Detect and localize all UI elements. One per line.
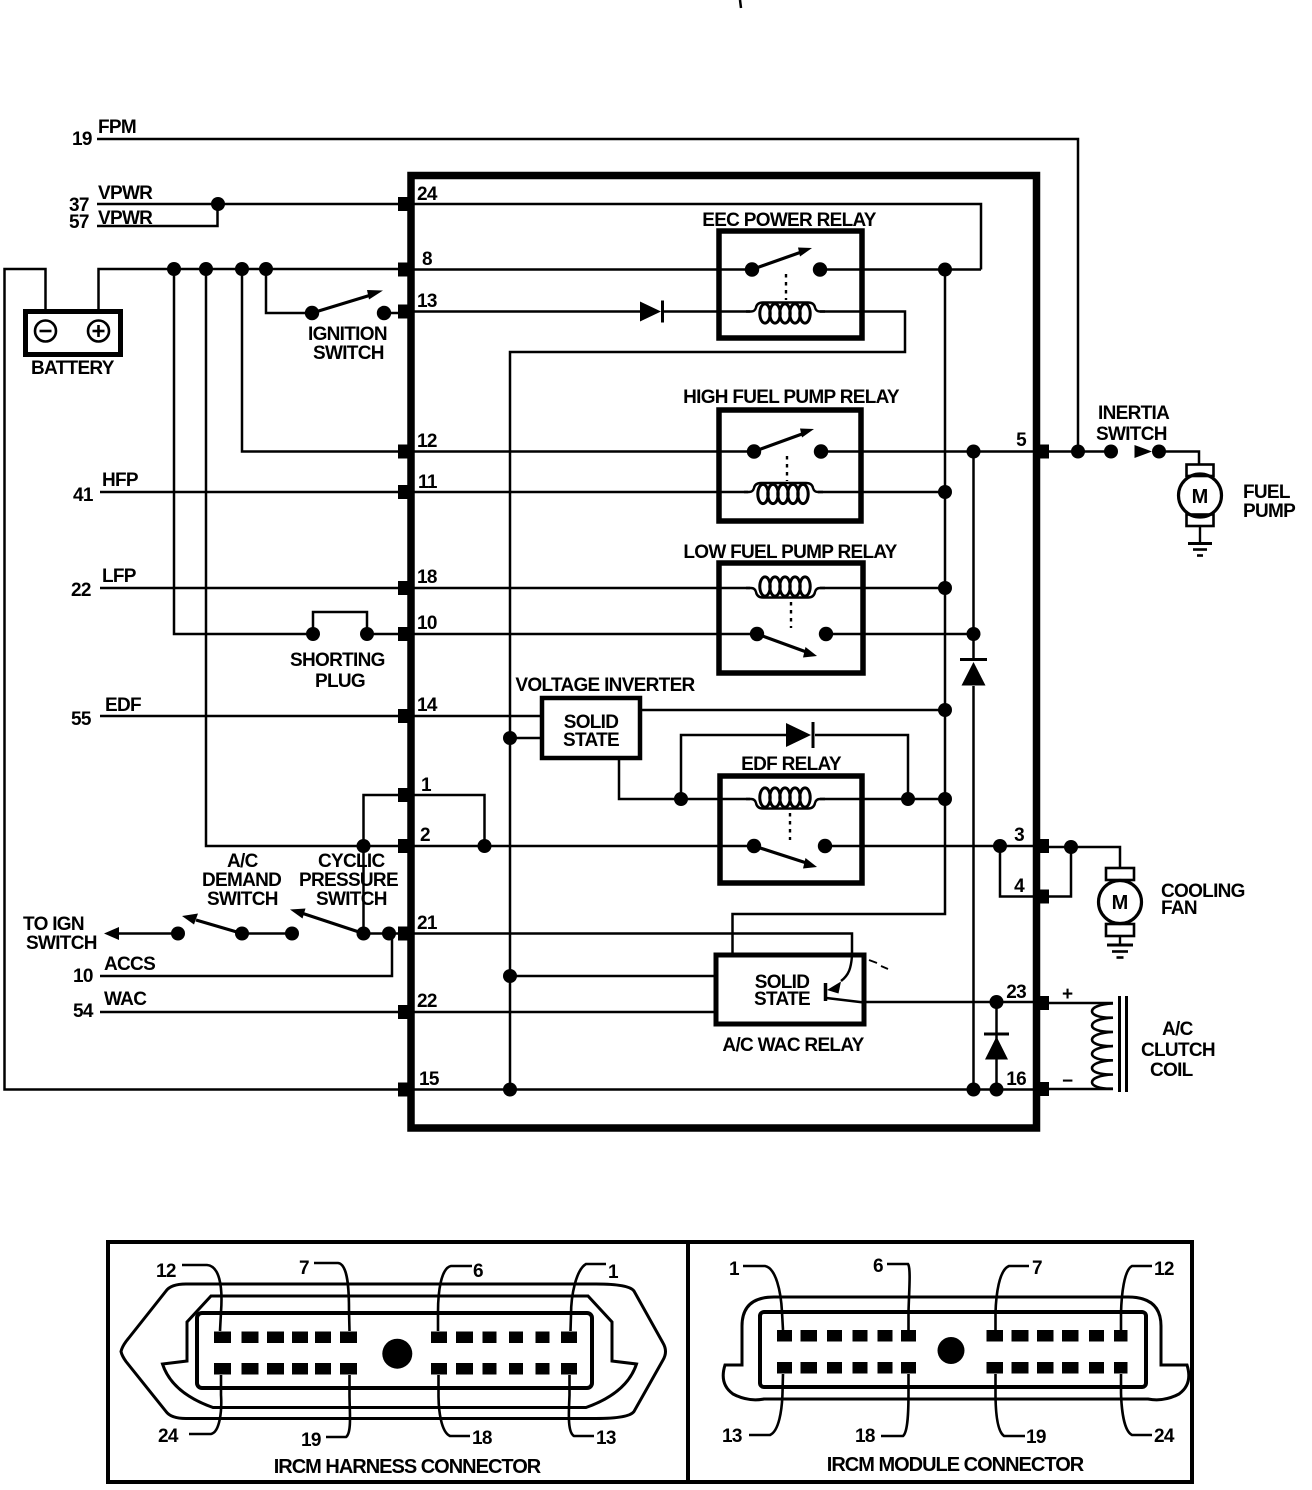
leader harness 6: [438, 1266, 472, 1331]
EEC power relay U1: [719, 231, 862, 338]
svg-text:SWITCH: SWITCH: [316, 889, 387, 910]
node LFP output junction on vertical B: [967, 627, 981, 641]
svg-text:2: 2: [420, 825, 430, 846]
connector panel divider: [686, 1242, 690, 1482]
leader harness 12: [182, 1265, 221, 1331]
pin 16 terminal: [1036, 1082, 1049, 1096]
module pin slot bottom R4: [1062, 1362, 1079, 1374]
A/C WAC relay solid state box: [716, 955, 864, 1024]
wire pin 3 to pin 4 outside bridge: [1043, 847, 1071, 897]
wire EEC right contact to loop corner: [820, 268, 981, 271]
harness pin 6 slot: [431, 1332, 447, 1344]
pin 3 terminal: [1036, 839, 1049, 853]
node pin 3 inside junction: [993, 839, 1007, 853]
ignition switch: [312, 290, 383, 313]
node EDF diode loop junction: [901, 792, 915, 806]
svg-text:24: 24: [417, 184, 438, 205]
module pin slot bottom L5: [878, 1362, 893, 1374]
module pin 19 slot: [987, 1362, 1004, 1374]
svg-text:CLUTCH: CLUTCH: [1141, 1040, 1215, 1061]
svg-text:A/C: A/C: [1162, 1019, 1194, 1040]
diode CR3 on vertical B: [960, 660, 987, 686]
svg-text:FAN: FAN: [1161, 898, 1197, 919]
harness pin slot bottom L5: [315, 1363, 331, 1375]
node LFP left contact: [750, 627, 764, 641]
harness connector center post: [382, 1339, 412, 1369]
node pin2 outside junction: [357, 839, 371, 853]
cyclic pressure switch: [290, 909, 364, 934]
svg-text:INERTIA: INERTIA: [1098, 403, 1170, 424]
svg-text:VPWR: VPWR: [98, 183, 153, 204]
node LFP coil junction on vertical A: [938, 581, 952, 595]
wire EDF diode bypass loop: [681, 735, 786, 799]
svg-text:12: 12: [417, 431, 437, 452]
module connector outer shell: [723, 1297, 1189, 1400]
svg-text:6: 6: [873, 1256, 883, 1277]
wire pin 2 to EDF left contact: [411, 845, 754, 848]
svg-text:EEC POWER RELAY: EEC POWER RELAY: [702, 210, 877, 231]
wire HFP coil to vertical A: [818, 491, 945, 494]
harness pin slot bottom L3: [267, 1363, 284, 1375]
module pin slot top R5: [1089, 1330, 1104, 1342]
svg-text:54: 54: [73, 1001, 94, 1022]
node HFP right contact: [814, 444, 828, 458]
svg-text:PLUG: PLUG: [315, 671, 365, 692]
node EDF left contact: [747, 839, 761, 853]
module pin slot top L4: [853, 1330, 868, 1342]
svg-text:4: 4: [1014, 876, 1025, 897]
harness pin 24 slot: [214, 1363, 231, 1375]
leader module 6: [887, 1264, 910, 1330]
node to-ign contact: [171, 927, 185, 941]
node ignition switch right contact: [377, 306, 391, 320]
wire shorting plug to pin 10: [367, 633, 404, 636]
wire EEC coil return loop to vertical at x510: [510, 312, 905, 1090]
WAC relay transistor Q1: [826, 956, 865, 1003]
node EDF right contact: [818, 839, 832, 853]
svg-text:11: 11: [418, 472, 438, 493]
leader harness 18: [439, 1375, 471, 1436]
wire pin 13 to diode: [411, 310, 640, 313]
svg-text:5: 5: [1016, 430, 1027, 451]
svg-text:1: 1: [421, 775, 432, 796]
harness pin 19 slot: [340, 1363, 357, 1375]
wire diode to EEC coil: [664, 310, 750, 313]
module pin 13 slot: [777, 1362, 792, 1374]
wire x510 junction to WAC relay input: [510, 975, 716, 978]
wire VPWR pin57 riser to junction: [97, 204, 218, 226]
harness pin 13 slot: [561, 1363, 577, 1375]
svg-text:STATE: STATE: [563, 730, 619, 751]
wire vertical B fuel pump feed to ground line: [972, 452, 975, 660]
harness pin 18 slot: [431, 1363, 447, 1375]
harness connector pin block: [197, 1313, 592, 1388]
harness pin slot bottom R4: [509, 1363, 523, 1375]
wire pin 10 to LFP left contact: [411, 633, 757, 636]
svg-text:16: 16: [1006, 1069, 1026, 1090]
wire pin 24 inside loop to EEC contact line: [411, 204, 981, 270]
node shorting plug left: [306, 627, 320, 641]
wire shorting plug bridge: [313, 612, 367, 634]
module pin 1 slot: [777, 1330, 792, 1342]
wire vertical B lower segment: [972, 686, 975, 1090]
connector panel frame: [108, 1242, 1192, 1482]
pin 22 terminal: [398, 1005, 411, 1019]
node clamp diode ground junction: [990, 1083, 1004, 1097]
leader harness 24: [189, 1375, 221, 1434]
pin 15 terminal: [398, 1083, 411, 1097]
svg-text:+: +: [1062, 984, 1073, 1005]
pin 10 terminal: [398, 627, 411, 641]
svg-text:10: 10: [417, 613, 437, 634]
node bus junction 2: [199, 262, 213, 276]
svg-text:STATE: STATE: [754, 989, 810, 1010]
scan artifact dashes near WAC box: [869, 960, 888, 969]
svg-text:IRCM HARNESS CONNECTOR: IRCM HARNESS CONNECTOR: [274, 1456, 542, 1478]
wire bus drop to shorting plug pin 10: [174, 269, 313, 634]
svg-text:7: 7: [1032, 1258, 1042, 1279]
node vertical B top junction: [967, 445, 981, 459]
svg-text:14: 14: [417, 695, 438, 716]
diode CR2 in EDF bypass loop: [786, 722, 813, 748]
node ignition switch left contact: [305, 306, 319, 320]
svg-text:19: 19: [301, 1430, 321, 1451]
pin 12 terminal: [398, 445, 411, 459]
wire pin 23 to clutch coil: [1043, 1002, 1113, 1005]
harness pin slot bottom R5: [536, 1363, 550, 1375]
module pin slot top R2: [1012, 1330, 1029, 1342]
harness pin slot bottom L2: [242, 1363, 259, 1375]
svg-text:41: 41: [73, 485, 94, 506]
pin 24 terminal: [398, 197, 411, 211]
wire VPWR pin37 to module pin 24: [97, 203, 404, 206]
wire demand switch pivot to cyclic contact: [242, 932, 292, 935]
node bus junction 4: [259, 262, 273, 276]
diode CR1 on pin 13 line: [640, 301, 663, 323]
module connector pin block: [760, 1312, 1146, 1387]
svg-text:M: M: [1112, 892, 1129, 914]
svg-text:23: 23: [1006, 982, 1026, 1003]
svg-text:SHORTING: SHORTING: [290, 650, 385, 671]
harness pin slot top R2: [456, 1332, 473, 1344]
wire WAC relay output to pin 23: [864, 1001, 1036, 1004]
pin 2 terminal: [398, 839, 411, 853]
node cyclic switch pivot: [357, 927, 371, 941]
wire pin 8 to EEC left contact: [411, 268, 752, 271]
svg-text:22: 22: [417, 991, 437, 1012]
wire pin 5 to inertia switch: [1043, 450, 1111, 453]
svg-text:13: 13: [722, 1426, 742, 1447]
leader harness 19: [326, 1375, 350, 1437]
wire pin 1 outside stub: [364, 795, 405, 846]
leader harness 1: [571, 1264, 607, 1331]
module connector center post: [938, 1337, 965, 1364]
wire battery positive bus to module pin 8: [99, 269, 405, 311]
svg-text:HFP: HFP: [102, 470, 139, 491]
node HFP left contact: [747, 444, 761, 458]
pin 14 terminal: [398, 709, 411, 723]
fuel pump motor: [1179, 465, 1222, 543]
wire EDF coil to vertical A: [820, 798, 945, 801]
svg-text:A/C WAC RELAY: A/C WAC RELAY: [722, 1035, 864, 1056]
svg-text:55: 55: [71, 709, 92, 730]
svg-text:LFP: LFP: [102, 566, 137, 587]
wire pin2 junction down to cyclic pressure switch: [362, 846, 365, 934]
module pin slot bottom R5: [1089, 1362, 1104, 1374]
svg-text:8: 8: [422, 249, 432, 270]
node bus junction 3: [235, 262, 249, 276]
module pin slot top R4: [1062, 1330, 1079, 1342]
svg-text:DEMAND: DEMAND: [202, 870, 281, 891]
svg-text:M: M: [1192, 486, 1209, 508]
svg-text:22: 22: [71, 580, 91, 601]
svg-text:24: 24: [158, 1426, 179, 1447]
module pin slot bottom L2: [801, 1362, 818, 1374]
node pin 1 inside junction: [478, 839, 492, 853]
svg-text:PUMP: PUMP: [1243, 501, 1296, 522]
node clamp diode junction: [990, 995, 1004, 1009]
svg-text:IGNITION: IGNITION: [308, 324, 387, 345]
harness pin slot top R3: [483, 1332, 497, 1344]
pin 8 terminal: [398, 263, 411, 277]
svg-text:VOLTAGE INVERTER: VOLTAGE INVERTER: [515, 675, 695, 696]
wire LFP coil to vertical A: [820, 587, 945, 590]
harness pin slot top L3: [267, 1332, 284, 1344]
wire HFP right contact to pin 5: [821, 450, 1036, 453]
svg-text:21: 21: [417, 913, 438, 934]
wire vertical A from EEC output down to A/C WAC relay: [733, 270, 946, 956]
leader harness 13: [569, 1375, 594, 1436]
svg-text:6: 6: [473, 1261, 483, 1282]
harness connector inner shell: [163, 1296, 637, 1408]
wire to ign switch segment: [116, 932, 178, 935]
leader module 1: [743, 1266, 783, 1330]
svg-text:13: 13: [596, 1428, 616, 1449]
pin 11 terminal: [398, 485, 411, 499]
module pin 12 slot: [1114, 1330, 1128, 1342]
wire LFP pin22 to pin 18: [100, 587, 404, 590]
wire voltage inverter output to vertical A: [640, 709, 945, 712]
svg-text:1: 1: [729, 1259, 740, 1280]
EDF relay K3: [720, 776, 862, 883]
wire ignition switch to pin 13: [384, 312, 404, 315]
svg-text:PRESSURE: PRESSURE: [299, 870, 398, 891]
harness pin slot top L2: [242, 1332, 259, 1344]
module pin slot top L3: [827, 1330, 842, 1342]
module pin 18 slot: [901, 1362, 916, 1374]
node cyclic fixed contact: [285, 927, 299, 941]
svg-text:12: 12: [1154, 1259, 1174, 1280]
node EEC output junction: [938, 263, 952, 277]
harness connector outer shell: [121, 1284, 666, 1419]
wire bus drop to pin 12: [242, 269, 404, 452]
leader module 7: [996, 1266, 1030, 1330]
A/C clutch coil: [1092, 996, 1127, 1092]
wire clamp diode to ground line: [995, 1002, 998, 1090]
node FPM junction at pin 5: [1071, 445, 1085, 459]
module pin slot bottom R2: [1012, 1362, 1029, 1374]
node EDF coil left junction: [674, 792, 688, 806]
wire pin 15 to pin 16 ground line: [411, 1088, 1036, 1091]
svg-text:15: 15: [419, 1069, 440, 1090]
node VI input junction: [503, 731, 517, 745]
wire pin 1 inside stub: [411, 795, 485, 846]
module pin slot top L5: [878, 1330, 893, 1342]
wire EDF right contact to pin 3: [825, 845, 1036, 848]
leader module 19: [996, 1374, 1026, 1436]
wire pin 22 to WAC relay: [411, 1011, 716, 1014]
wire voltage inverter bottom output to EDF coil: [619, 758, 750, 799]
TO IGN SWITCH arrow: [104, 927, 119, 940]
pin 4 terminal: [1036, 890, 1049, 904]
module pin slot bottom L4: [853, 1362, 868, 1374]
IRCM module box: [411, 176, 1037, 1129]
pin 23 terminal: [1036, 996, 1049, 1010]
pin 5 terminal: [1036, 445, 1049, 459]
svg-text:SWITCH: SWITCH: [313, 343, 384, 364]
node HFP coil junction on vertical A: [938, 485, 952, 499]
svg-text:TO IGN: TO IGN: [23, 914, 84, 935]
module pin slot top R3: [1037, 1330, 1054, 1342]
wire pin 11 to HFP coil: [411, 491, 748, 494]
svg-text:18: 18: [855, 1426, 875, 1447]
pin 1 terminal: [398, 788, 411, 802]
diode CR4 clamp at pin 23: [984, 1034, 1009, 1060]
leader module 12: [1121, 1266, 1152, 1330]
svg-text:19: 19: [1026, 1427, 1046, 1448]
wire HFP pin41 to pin 11: [100, 491, 404, 494]
wire ACCS pin10 riser to pin 21 line: [100, 934, 392, 977]
svg-text:CYCLIC: CYCLIC: [318, 851, 386, 872]
svg-text:EDF RELAY: EDF RELAY: [741, 754, 842, 775]
module pin slot top L2: [801, 1330, 818, 1342]
node VI output junction on vertical A: [938, 703, 952, 717]
node WAC input junction: [503, 969, 517, 983]
leader module 24: [1121, 1374, 1152, 1435]
wire EDF diode loop right side: [815, 735, 908, 799]
wire pin 3 to pin 4 inside bridge: [1000, 846, 1036, 897]
svg-text:FPM: FPM: [98, 117, 136, 138]
svg-text:A/C: A/C: [227, 851, 259, 872]
svg-text:EDF: EDF: [105, 695, 141, 716]
cooling fan motor: [1099, 868, 1142, 944]
scan artifact tick top center: [740, 0, 741, 8]
wire WAC pin54 to pin 22: [100, 1011, 404, 1014]
module pin 7 slot: [987, 1330, 1004, 1342]
svg-text:COIL: COIL: [1150, 1060, 1194, 1081]
harness pin slot bottom L4: [292, 1363, 308, 1375]
harness pin 7 slot: [340, 1332, 357, 1344]
svg-text:LOW FUEL PUMP RELAY: LOW FUEL PUMP RELAY: [683, 542, 897, 563]
wire pin 3 to cooling fan: [1043, 847, 1120, 868]
wire EDF pin55 to pin 14: [100, 715, 404, 718]
node vertical B ground junction: [967, 1083, 981, 1097]
cooling fan ground: [1107, 945, 1133, 958]
node pin 3 outside junction: [1064, 840, 1078, 854]
wire bus drop to ignition switch: [266, 269, 312, 313]
wire pin 21 to WAC relay top: [411, 934, 852, 956]
leader module 13: [749, 1374, 783, 1435]
wire LFP right contact to vertical B: [826, 633, 974, 636]
svg-text:SWITCH: SWITCH: [26, 933, 97, 954]
low fuel pump relay K2: [719, 563, 863, 673]
svg-text:SWITCH: SWITCH: [1096, 424, 1167, 445]
svg-text:SWITCH: SWITCH: [207, 889, 278, 910]
svg-text:57: 57: [69, 212, 89, 233]
module pin slot bottom L3: [827, 1362, 842, 1374]
A/C demand switch: [182, 914, 242, 934]
node inertia switch left contact: [1104, 445, 1118, 459]
voltage inverter solid state box: [542, 698, 640, 758]
svg-text:FUEL: FUEL: [1243, 482, 1291, 503]
wire pin 18 to LFP coil: [411, 587, 750, 590]
svg-text:3: 3: [1014, 825, 1024, 846]
wire pin 14 to voltage inverter: [411, 715, 542, 718]
svg-text:WAC: WAC: [104, 989, 147, 1010]
module pin 6 slot: [901, 1330, 916, 1342]
svg-text:ACCS: ACCS: [104, 954, 155, 975]
harness pin slot top L5: [315, 1332, 331, 1344]
node EEC right contact: [813, 262, 827, 276]
svg-text:24: 24: [1154, 1426, 1175, 1447]
pin 21 terminal: [398, 927, 411, 941]
svg-text:−: −: [1062, 1071, 1073, 1092]
wire pin 12 to HFP left contact: [411, 450, 754, 453]
svg-text:10: 10: [73, 966, 93, 987]
svg-text:7: 7: [299, 1258, 309, 1279]
wire cyclic pivot to pin 21: [364, 932, 405, 935]
node demand switch pivot: [235, 927, 249, 941]
wire bus drop to pin 2: [206, 269, 404, 846]
harness pin slot top R4: [509, 1332, 523, 1344]
harness pin slot top L4: [292, 1332, 308, 1344]
svg-text:1: 1: [608, 1262, 619, 1283]
svg-text:VPWR: VPWR: [98, 208, 153, 229]
high fuel pump relay K1: [719, 410, 861, 521]
harness pin slot bottom R3: [483, 1363, 497, 1375]
node ground line junction x510: [503, 1083, 517, 1097]
harness pin 1 slot: [561, 1332, 577, 1344]
wire pin 16 to clutch coil: [1043, 1088, 1113, 1091]
module pin 24 slot: [1114, 1362, 1128, 1374]
node shorting plug right: [360, 627, 374, 641]
svg-text:19: 19: [72, 129, 92, 150]
fuel pump ground: [1188, 544, 1212, 556]
harness pin slot top R5: [536, 1332, 550, 1344]
leader module 18: [881, 1374, 909, 1436]
svg-text:BATTERY: BATTERY: [31, 358, 115, 379]
svg-text:HIGH FUEL PUMP RELAY: HIGH FUEL PUMP RELAY: [683, 387, 900, 408]
svg-text:18: 18: [417, 567, 437, 588]
inertia switch arrow: [1135, 445, 1153, 458]
battery: [26, 312, 121, 355]
leader harness 7: [314, 1263, 350, 1331]
module pin slot bottom R3: [1037, 1362, 1054, 1374]
pin 18 terminal: [398, 581, 411, 595]
node inertia switch right contact: [1152, 445, 1166, 459]
node bus junction 1: [167, 262, 181, 276]
wire x510 junction to voltage inverter input: [510, 737, 542, 740]
wire battery negative to left rail to module pin 15: [5, 269, 405, 1090]
wire FPM pin19 to inertia junction: [97, 139, 1078, 452]
harness pin slot bottom R2: [456, 1363, 473, 1375]
wire inertia switch to fuel pump: [1159, 452, 1199, 466]
node ACCS junction: [382, 927, 396, 941]
harness pin 12 slot: [214, 1332, 231, 1344]
pin 13 terminal: [398, 305, 411, 319]
svg-text:12: 12: [156, 1261, 176, 1282]
node LFP right contact: [819, 627, 833, 641]
